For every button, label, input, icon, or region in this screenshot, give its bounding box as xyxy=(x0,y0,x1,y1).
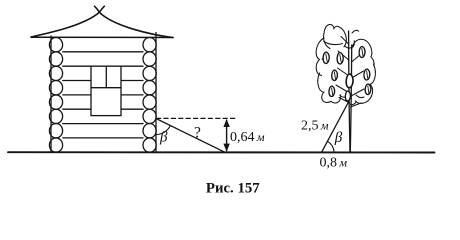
svg-text:0,8 м: 0,8 м xyxy=(320,156,348,171)
svg-text:0,64 м: 0,64 м xyxy=(230,130,265,145)
svg-text:Рис. 157: Рис. 157 xyxy=(206,180,260,196)
svg-text:2,5 м: 2,5 м xyxy=(301,119,329,134)
svg-text:β: β xyxy=(334,130,343,146)
svg-text:?: ? xyxy=(194,125,201,142)
svg-text:β: β xyxy=(159,130,168,146)
